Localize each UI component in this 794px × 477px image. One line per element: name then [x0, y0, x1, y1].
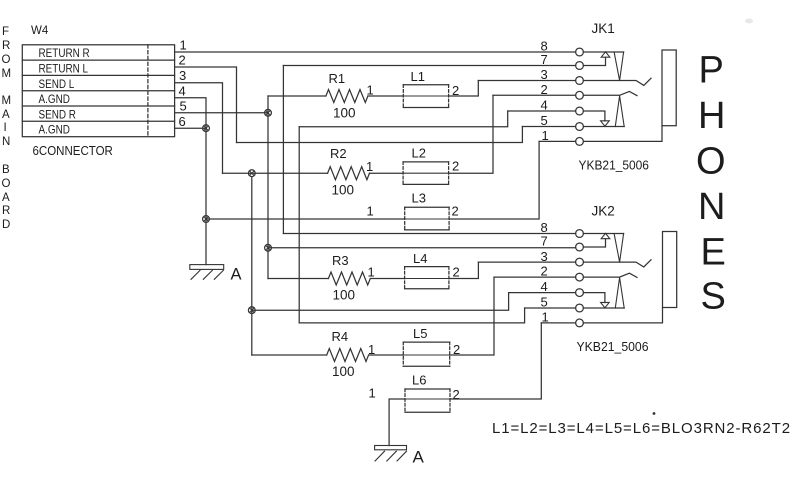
- svg-text:2: 2: [453, 264, 460, 279]
- wire JK1 pin4 internal with switch arrow stem: [583, 111, 605, 121]
- svg-text:1: 1: [367, 83, 374, 98]
- wire L2 out to JK1 pin2 riser: [449, 95, 493, 173]
- node junction A.GND / L3 feed: [203, 216, 210, 223]
- svg-text:L5: L5: [413, 326, 427, 341]
- jack JK1 ring contact finger: [615, 96, 624, 127]
- svg-text:100: 100: [332, 183, 355, 198]
- svg-text:1: 1: [542, 128, 549, 143]
- wire JK1 pin5 entry: [522, 126, 575, 128]
- jack JK2 pin 8 terminal circle: [576, 230, 584, 238]
- node junction SEND R / JK2 pin7 feed: [265, 244, 272, 251]
- wire RETURN L: W4 pin2 right then down: [175, 67, 237, 143]
- wire JK2 pin8 entry: [283, 233, 575, 235]
- jack JK2 pin number labels 8 7 3 2 4 5 1: [541, 220, 549, 324]
- wire JK2 pin5 entry: [525, 307, 576, 309]
- jack JK2 switch arrow head (down): [601, 302, 610, 307]
- wire L5 out to JK2 pin2 riser: [450, 277, 494, 355]
- wire R4 to L5: [369, 354, 404, 356]
- inductor L1: [403, 85, 448, 108]
- node junction A.GND pin4/pin6: [203, 125, 210, 132]
- wire R1 feed from SEND R vertical: [268, 95, 326, 97]
- jack JK1 pin 5 terminal circle: [576, 123, 584, 131]
- svg-text:6: 6: [179, 114, 186, 129]
- svg-text:L3: L3: [412, 191, 426, 206]
- svg-text:M: M: [2, 68, 12, 80]
- svg-text:5: 5: [180, 99, 187, 114]
- wire JK2 pin2 entry: [494, 276, 576, 278]
- svg-text:O: O: [2, 54, 11, 66]
- svg-text:YKB21_5006: YKB21_5006: [577, 340, 649, 354]
- svg-text:1: 1: [369, 386, 376, 401]
- svg-text:RETURN R: RETURN R: [39, 47, 90, 60]
- resistor R2: [328, 167, 370, 180]
- wire JK1 pin7 internal with switch arrow stem: [583, 57, 605, 65]
- wire JK1 pin5 internal: [583, 126, 624, 128]
- wire JK1 pin1 internal to body: [583, 126, 662, 142]
- wire L1 out to JK1 pin3 riser: [449, 81, 479, 97]
- svg-text:S: S: [701, 276, 726, 318]
- svg-text:A: A: [231, 266, 242, 284]
- svg-text:6CONNECTOR: 6CONNECTOR: [33, 143, 113, 158]
- node junction SEND L / JK2 pin4 feed: [248, 307, 255, 314]
- jack JK1 pin number labels 8 7 3 2 4 5 1: [541, 39, 549, 143]
- svg-text:L1: L1: [411, 69, 425, 84]
- wire JK1 pin7 horizontal: [283, 65, 575, 67]
- wire JK2 pin7 internal with switch arrow stem: [583, 239, 605, 247]
- resistor R1: [326, 90, 368, 103]
- wire SEND R: W4 pin5 to junction: [175, 112, 268, 114]
- svg-text:D: D: [2, 219, 10, 231]
- svg-text:R3: R3: [332, 253, 349, 268]
- wire JK2 pin1 entry: [541, 322, 575, 324]
- svg-text:R1: R1: [329, 71, 346, 86]
- wire JK1 pin1 entry: [539, 140, 576, 142]
- svg-text:O: O: [696, 140, 726, 182]
- svg-text:5: 5: [541, 113, 548, 128]
- svg-text:SEND L: SEND L: [39, 78, 75, 91]
- wire JK2 pin2 internal with ring switch contact: [583, 273, 637, 277]
- jack JK1 pin 2 terminal circle: [576, 91, 584, 99]
- inductor L5: [403, 342, 449, 366]
- connector W4 pin numbers 1-6: [179, 38, 187, 130]
- wire chain JK1 pin7 to JK2 pin8 vertical: [282, 66, 284, 234]
- jack JK2 ring contact finger: [615, 278, 624, 308]
- jack JK1 switch arrow head (up): [601, 52, 610, 57]
- wire JK2 pin7 entry from SEND R junction: [268, 247, 576, 249]
- wire L6 input from ground riser: [389, 399, 405, 446]
- svg-text:2: 2: [541, 82, 548, 97]
- inductor L6: [405, 389, 450, 412]
- svg-text:JK2: JK2: [592, 204, 615, 219]
- wire JK1 pin4 entry: [508, 110, 576, 112]
- svg-text:1: 1: [542, 310, 549, 325]
- wire L6 out to JK2 pin1 riser: [450, 323, 541, 399]
- svg-text:R2: R2: [330, 146, 347, 161]
- inductor L2: [403, 162, 449, 185]
- svg-text:L1=L2=L3=L4=L5=L6=BLO3RN2-R62T: L1=L2=L3=L4=L5=L6=BLO3RN2-R62T2: [492, 420, 791, 437]
- wire chain JK1 pin4 to JK2 pin5 vertical: [298, 127, 300, 323]
- wire JK1 pin2 entry: [493, 94, 576, 96]
- jack JK2 tip contact finger: [614, 234, 624, 263]
- resistor R4: [327, 349, 369, 362]
- svg-text:3: 3: [541, 67, 548, 82]
- svg-text:A: A: [2, 109, 10, 121]
- wire JK2 pin4 entry: [509, 292, 576, 294]
- wire JK1 pin4 feed horizontal: [299, 111, 508, 127]
- jack JK2 body (sleeve): [663, 232, 677, 308]
- svg-text:N: N: [698, 186, 725, 228]
- node junction SEND R / pin5: [265, 109, 272, 116]
- svg-text:M: M: [2, 95, 12, 107]
- svg-text:1: 1: [368, 264, 375, 279]
- wire A.GND: W4 pin6 stub: [175, 127, 206, 129]
- wire L3 feed from A.GND junction: [206, 218, 405, 220]
- connector W4 inner dashed column: [147, 45, 149, 137]
- node stray dot artifact: [653, 412, 656, 415]
- jack JK2 switch arrow head (up): [601, 233, 610, 238]
- jack JK2 pin 7 terminal circle: [576, 243, 584, 251]
- svg-text:1: 1: [180, 38, 187, 53]
- svg-text:YKB21_5006: YKB21_5006: [579, 158, 650, 173]
- wire JK2 pin1 internal to body: [583, 308, 662, 323]
- svg-text:R: R: [2, 40, 10, 52]
- svg-text:L4: L4: [413, 251, 427, 266]
- svg-text:2: 2: [179, 53, 186, 68]
- svg-text:L6: L6: [412, 373, 426, 388]
- wire R3 to L4: [370, 278, 404, 280]
- jack JK2 pin 1 terminal circle: [576, 319, 584, 327]
- svg-text:A.GND: A.GND: [39, 124, 70, 137]
- svg-text:7: 7: [541, 234, 548, 249]
- svg-text:L2: L2: [412, 146, 426, 161]
- svg-text:3: 3: [541, 249, 548, 264]
- svg-text:I: I: [4, 122, 7, 134]
- svg-text:1: 1: [366, 159, 373, 174]
- jack JK2 pin 3 terminal circle: [576, 258, 584, 266]
- svg-text:4: 4: [541, 98, 548, 113]
- svg-text:F: F: [2, 26, 9, 38]
- svg-text:2: 2: [541, 264, 548, 279]
- jack JK2 pin 5 terminal circle: [576, 304, 584, 312]
- svg-text:SEND R: SEND R: [39, 108, 76, 121]
- connector W4 body outline: [22, 45, 174, 137]
- wire JK2 pin8 internal: [583, 233, 623, 235]
- svg-text:7: 7: [541, 52, 548, 67]
- inductor L3: [405, 207, 449, 230]
- svg-text:O: O: [2, 178, 11, 190]
- svg-text:JK1: JK1: [592, 21, 615, 36]
- wire JK2 pin3 internal with tip switch contact: [583, 260, 651, 267]
- wire RETURN R: W4 pin1 to JK1 pin8: [175, 51, 576, 53]
- svg-text:W4: W4: [31, 25, 49, 37]
- jack JK1 pin 1 terminal circle: [576, 138, 584, 146]
- wire SEND R main vertical: [267, 96, 269, 279]
- connector W4 row separator lines: [22, 60, 174, 121]
- svg-text:P: P: [699, 50, 724, 92]
- wire L3 out to JK1 pin1 riser: [449, 141, 539, 219]
- jack JK2 pin 4 terminal circle: [576, 289, 584, 297]
- wire JK2 pin5 internal: [583, 307, 624, 309]
- wire JK2 pin4 feed from SEND L junction: [252, 293, 509, 311]
- svg-text:4: 4: [179, 83, 186, 98]
- wire SEND L to R2 junction: [223, 172, 252, 174]
- jack JK1 pin 4 terminal circle: [576, 107, 584, 115]
- jack JK1 body (sleeve): [662, 50, 676, 126]
- svg-text:100: 100: [332, 364, 355, 379]
- svg-text:R4: R4: [332, 329, 349, 344]
- svg-text:E: E: [701, 231, 726, 273]
- wire JK1 pin3 internal with tip switch contact: [583, 78, 651, 85]
- svg-text:A: A: [2, 192, 10, 204]
- svg-text:N: N: [2, 136, 10, 148]
- wire R1 to L1: [368, 95, 403, 97]
- wire SEND L main vertical: [251, 177, 253, 355]
- svg-text:2: 2: [452, 159, 459, 174]
- jack JK1 pin 7 terminal circle: [576, 62, 584, 70]
- ground A (left, analog ground): [190, 265, 224, 280]
- jack JK1 pin 8 terminal circle: [576, 48, 584, 56]
- node FROM MAIN BOARD (vertical caption): [2, 26, 12, 231]
- svg-text:RETURN L: RETURN L: [39, 63, 89, 76]
- wire JK2 pin3 entry: [478, 261, 575, 263]
- wire JK1 pin8 internal: [583, 51, 623, 53]
- svg-text:A: A: [413, 448, 425, 467]
- svg-text:5: 5: [541, 295, 548, 310]
- wire RETURN L horizontal run to JK1 pin5 riser: [237, 127, 523, 143]
- wire JK2 pin4 internal with switch arrow stem: [583, 293, 605, 303]
- jack JK1 switch arrow head (down): [601, 121, 610, 126]
- jack JK2 pin 2 terminal circle: [576, 273, 584, 281]
- wire SEND L: W4 pin3 right then down: [175, 83, 223, 174]
- node faint smudge artifact: [745, 19, 753, 24]
- wire JK1 pin3 entry: [478, 80, 575, 82]
- wire R4 feed from SEND L vertical: [252, 354, 327, 356]
- svg-text:B: B: [2, 164, 10, 176]
- svg-text:100: 100: [333, 106, 356, 121]
- jack JK1 tip contact finger: [614, 52, 624, 81]
- wire R3 feed from SEND R vertical: [268, 278, 328, 280]
- wire L4 out to JK2 pin3 riser: [449, 262, 479, 278]
- wire R2 feed from SEND L junction: [252, 172, 328, 174]
- resistor R3: [328, 272, 370, 285]
- ground A (bottom, analog ground): [375, 446, 407, 462]
- node PHONES caption (vertical): [696, 50, 726, 318]
- svg-text:3: 3: [179, 68, 186, 83]
- wire JK2 pin5 feed horizontal: [299, 308, 524, 323]
- connector W4 row labels: [39, 47, 90, 137]
- svg-text:4: 4: [541, 279, 548, 294]
- svg-text:2: 2: [453, 387, 460, 402]
- wire JK1 pin2 internal with ring switch contact: [583, 91, 637, 95]
- svg-text:H: H: [698, 95, 725, 137]
- node junction SEND L / R2 feed: [248, 170, 255, 177]
- wire A.GND: W4 pin4 right then down to ground: [175, 98, 206, 265]
- wire R2 to L2: [370, 172, 404, 174]
- inductor L4: [405, 267, 449, 289]
- svg-text:A.GND: A.GND: [39, 93, 70, 106]
- svg-text:R: R: [2, 205, 10, 217]
- svg-text:100: 100: [333, 288, 356, 303]
- jack JK1 pin 3 terminal circle: [576, 77, 584, 85]
- svg-text:1: 1: [367, 204, 374, 219]
- svg-text:2: 2: [452, 204, 459, 219]
